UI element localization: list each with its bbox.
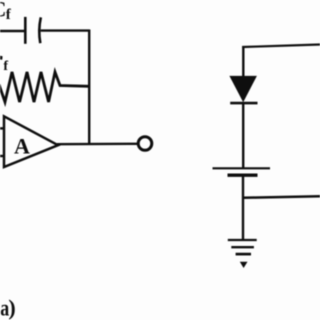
svg-text:f: f <box>3 59 8 74</box>
op-amp U1 <box>4 116 58 167</box>
svg-text:f: f <box>6 7 12 23</box>
wire diode cathode to battery <box>242 104 244 168</box>
wire Cf right lead <box>41 29 90 31</box>
battery B1 <box>213 168 271 175</box>
wire non-inverting input stub <box>0 155 4 157</box>
wire branch right <box>243 196 320 198</box>
wire op-amp output <box>57 143 138 146</box>
svg-text:A: A <box>14 134 30 159</box>
label Rf <box>0 56 8 74</box>
wire top right horizontal <box>242 45 320 48</box>
wire feedback vertical <box>88 30 90 145</box>
capacitor Cf <box>25 17 41 44</box>
wire left lead of Cf <box>0 30 25 32</box>
caption (a) <box>0 295 16 320</box>
ground <box>228 240 257 268</box>
svg-text:): ) <box>8 295 15 320</box>
diode D1 <box>229 76 257 103</box>
terminal output <box>138 137 152 151</box>
wire inverting input stub <box>0 127 4 129</box>
wire battery to ground <box>242 176 244 240</box>
wire diode anode vertical <box>242 46 244 77</box>
label Cf <box>0 0 12 23</box>
resistor Rf <box>0 72 90 102</box>
